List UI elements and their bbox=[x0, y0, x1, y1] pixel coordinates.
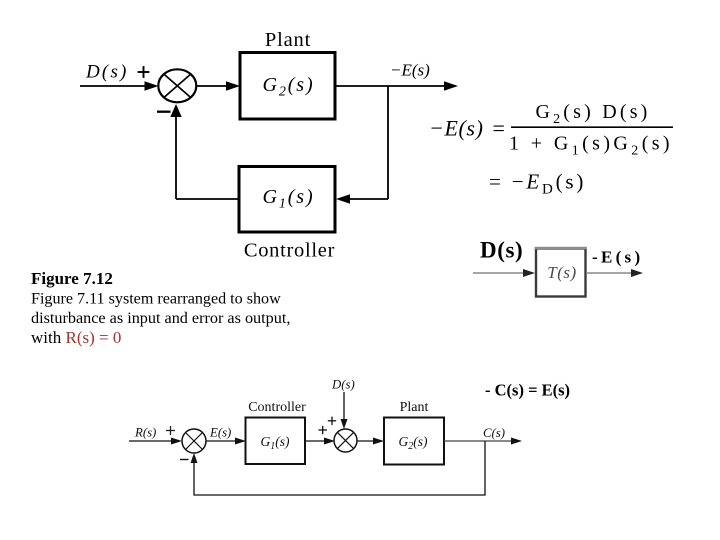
block G2(s) plant bbox=[240, 53, 335, 120]
summing junction S3 bbox=[334, 429, 357, 452]
wire S2 to controller bbox=[206, 438, 246, 445]
minus sign at summing junction S2 bbox=[180, 459, 189, 461]
svg-text:-E(s): -E(s) bbox=[592, 248, 643, 267]
wire D(s) input bbox=[80, 81, 159, 91]
plus sign left at summing junction S3 bbox=[319, 426, 328, 434]
minus sign at summing junction S1 bbox=[157, 111, 171, 113]
svg-text:−E(s)=: −E(s)= bbox=[429, 116, 505, 141]
svg-text:Figure 7.12: Figure 7.12 bbox=[31, 269, 113, 288]
wire S3 to plant bbox=[357, 438, 384, 445]
block G2(s) bottom bbox=[384, 418, 444, 465]
svg-text:D(s): D(s) bbox=[480, 238, 523, 263]
equation fraction bar bbox=[511, 126, 673, 128]
svg-text:= −ED(s): = −ED(s) bbox=[489, 170, 586, 198]
plus sign at summing junction S1 bbox=[138, 66, 150, 78]
plus sign top at summing junction S3 bbox=[328, 417, 336, 425]
svg-text:Controller: Controller bbox=[244, 240, 335, 262]
wire G1 output to feedback bbox=[176, 198, 239, 200]
wire feedback bottom loop bbox=[191, 441, 486, 495]
wire D(s) down into S3 bbox=[341, 392, 348, 429]
svg-text:disturbance as input and error: disturbance as input and error as output… bbox=[31, 309, 290, 327]
svg-text:G2(s): G2(s) bbox=[262, 74, 314, 100]
summing junction S1 bbox=[158, 69, 196, 102]
svg-text:- C(s) = E(s): - C(s) = E(s) bbox=[485, 381, 570, 400]
svg-text:D(s): D(s) bbox=[331, 378, 355, 392]
summing junction S2 bbox=[182, 429, 206, 453]
wire S1 to G2 bbox=[196, 81, 240, 91]
svg-text:T(s): T(s) bbox=[547, 263, 576, 282]
svg-text:Plant: Plant bbox=[400, 400, 429, 415]
block T(s) bbox=[535, 248, 588, 297]
svg-text:G1(s): G1(s) bbox=[262, 186, 314, 212]
wire G2 output to -E(s) bbox=[335, 81, 458, 91]
wire into G1 right side bbox=[336, 194, 388, 204]
wire junction drop from output bbox=[387, 86, 389, 199]
svg-text:Controller: Controller bbox=[248, 400, 306, 415]
wire controller to S3 bbox=[305, 438, 335, 445]
block G1(s) controller bbox=[239, 167, 335, 233]
wire out of T block bbox=[586, 269, 643, 277]
svg-text:G2(s) D(s): G2(s) D(s) bbox=[535, 101, 650, 127]
svg-text:Figure 7.11 system rearranged: Figure 7.11 system rearranged to show bbox=[31, 291, 281, 308]
svg-text:R(s): R(s) bbox=[134, 426, 156, 440]
svg-text:Plant: Plant bbox=[265, 29, 311, 51]
svg-text:with R(s) = 0: with R(s) = 0 bbox=[31, 328, 121, 347]
wire into T block bbox=[473, 269, 535, 277]
svg-text:D(s): D(s) bbox=[85, 62, 129, 83]
block G1(s) bottom bbox=[246, 418, 306, 465]
wire plant output to C(s) bbox=[444, 438, 522, 445]
wire feedback up into S1 bbox=[170, 104, 181, 199]
svg-text:E(s): E(s) bbox=[209, 426, 231, 440]
svg-text:−E(s): −E(s) bbox=[390, 61, 430, 80]
plus sign at summing junction S2 bbox=[166, 426, 175, 435]
svg-text:C(s): C(s) bbox=[483, 426, 505, 440]
wire R(s) input bbox=[129, 438, 182, 445]
svg-text:1 + G1(s)G2(s): 1 + G1(s)G2(s) bbox=[509, 133, 673, 159]
